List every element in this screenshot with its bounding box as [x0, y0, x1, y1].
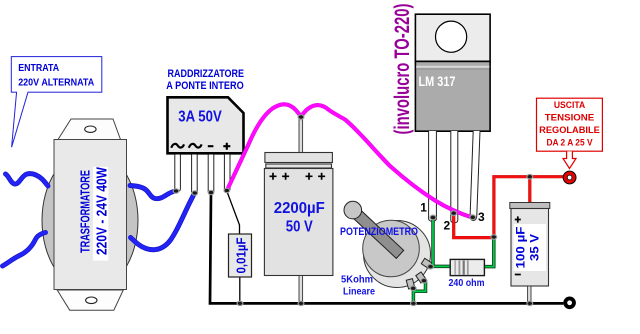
- svg-text:3A 50V: 3A 50V: [178, 109, 222, 126]
- svg-text:LM 317: LM 317: [419, 73, 456, 89]
- wire green pot wiper to ground: [413, 281, 425, 302]
- svg-text:REGOLABILE: REGOLABILE: [539, 125, 600, 136]
- svg-text:240 ohm: 240 ohm: [449, 277, 485, 289]
- svg-text:1: 1: [420, 201, 427, 215]
- wire red Vout: pin2 to node to +terminal and cap: [454, 177, 564, 238]
- callout ENTRATA 220V ALTERNATA: [11, 57, 102, 148]
- svg-text:2200µF: 2200µF: [274, 200, 325, 217]
- transformer T1: [42, 119, 138, 310]
- solder blob bridge leg2: [192, 191, 198, 195]
- wire AC left lower: [3, 233, 46, 267]
- svg-text:Lineare: Lineare: [343, 286, 375, 298]
- wire AC left upper: [6, 174, 49, 186]
- junction Vout node: [491, 235, 497, 240]
- junction red at 100uF top: [527, 174, 533, 179]
- wire magenta Vin: bridge + to pin3: [227, 104, 472, 217]
- callout arrow: [563, 151, 576, 168]
- svg-text:ENTRATA: ENTRATA: [18, 62, 59, 74]
- minus symbol: [208, 145, 214, 147]
- solder blob pin3: [470, 215, 476, 220]
- junction ground at pot: [411, 301, 417, 305]
- svg-text:220V - 24V 40W: 220V - 24V 40W: [94, 167, 110, 255]
- capacitor C3 100uF 35V: [510, 203, 550, 303]
- svg-text:5Kohm: 5Kohm: [341, 274, 373, 286]
- ac symbol 2: [189, 144, 202, 148]
- plus symbol: [223, 143, 230, 150]
- solder blob pot tab A: [428, 264, 434, 269]
- solder blob pot tab C: [410, 286, 416, 291]
- terminal - output: [563, 297, 576, 310]
- svg-text:POTENZIOMETRO: POTENZIOMETRO: [340, 226, 418, 238]
- bridge leg 1: [175, 155, 181, 192]
- potentiometer P1: [344, 201, 432, 289]
- junction ground at 100uF: [527, 301, 533, 305]
- bridge leg 3: [208, 155, 214, 195]
- wire AC right lower: [131, 193, 195, 250]
- lm317 leg 3: [470, 131, 480, 221]
- pot tab C: [406, 279, 415, 289]
- svg-text:100 µF: 100 µF: [514, 227, 528, 269]
- wire AC right upper: [130, 186, 176, 199]
- svg-text:DA 2 A 25 V: DA 2 A 25 V: [546, 138, 593, 149]
- wire green ADJ: pin1 to pot tab to resistor: [430, 219, 451, 267]
- svg-text:50 V: 50 V: [286, 219, 313, 236]
- solder blob pin1: [430, 215, 436, 220]
- svg-text:(involucro TO-220): (involucro TO-220): [391, 4, 414, 135]
- resistor R1 240 ohm: [450, 259, 484, 275]
- lm317 leg 1: [429, 131, 437, 221]
- lm317 leg 2: [451, 131, 458, 223]
- pot tab B: [416, 272, 426, 283]
- regulator U1 LM317 TO-220: [415, 14, 490, 223]
- svg-text:RADDRIZZATORE: RADDRIZZATORE: [168, 68, 245, 80]
- capacitor C2 0,01uF: [227, 191, 252, 302]
- capacitor C1 2200uF 50V: [264, 117, 333, 303]
- ac symbol 1: [171, 144, 184, 148]
- solder blob bridge leg1: [173, 189, 179, 193]
- label RADDRIZZATORE A PONTE INTERO: [166, 68, 244, 92]
- svg-text:3: 3: [478, 210, 485, 224]
- junction cap2200 top: [298, 115, 304, 120]
- pot shaft: [349, 206, 404, 258]
- svg-text:A PONTE INTERO: A PONTE INTERO: [166, 80, 243, 92]
- svg-text:2: 2: [443, 219, 450, 233]
- label involucro TO-220: [391, 4, 414, 135]
- wire green resistor right to Vout node: [484, 237, 494, 266]
- solder blob pin2: [451, 211, 457, 216]
- wire ground bus: [210, 193, 563, 304]
- svg-text:USCITA: USCITA: [554, 100, 585, 111]
- junction ground at 0,01uF: [237, 301, 243, 305]
- plus marks: [270, 173, 326, 180]
- svg-text:TRASFORMATORE: TRASFORMATORE: [78, 170, 92, 253]
- callout USCITA TENSIONE REGOLABILE: [537, 98, 603, 168]
- pot tab A: [421, 258, 432, 268]
- junction ground at 2200uF: [298, 301, 304, 305]
- svg-text:220V ALTERNATA: 220V ALTERNATA: [18, 76, 94, 88]
- bridge rectifier BR1 3A 50V: [168, 97, 244, 194]
- svg-text:0,01µF: 0,01µF: [234, 237, 249, 273]
- bridge leg 2: [192, 155, 198, 195]
- svg-text:35 V: 35 V: [528, 234, 542, 261]
- svg-text:TENSIONE: TENSIONE: [545, 113, 595, 124]
- solder blob bridge leg4: [224, 188, 230, 192]
- solder blob bridge leg3: [208, 190, 214, 194]
- solder blob pot tab B: [421, 278, 427, 283]
- bridge leg 4: [224, 155, 230, 192]
- terminal + output: [563, 171, 576, 184]
